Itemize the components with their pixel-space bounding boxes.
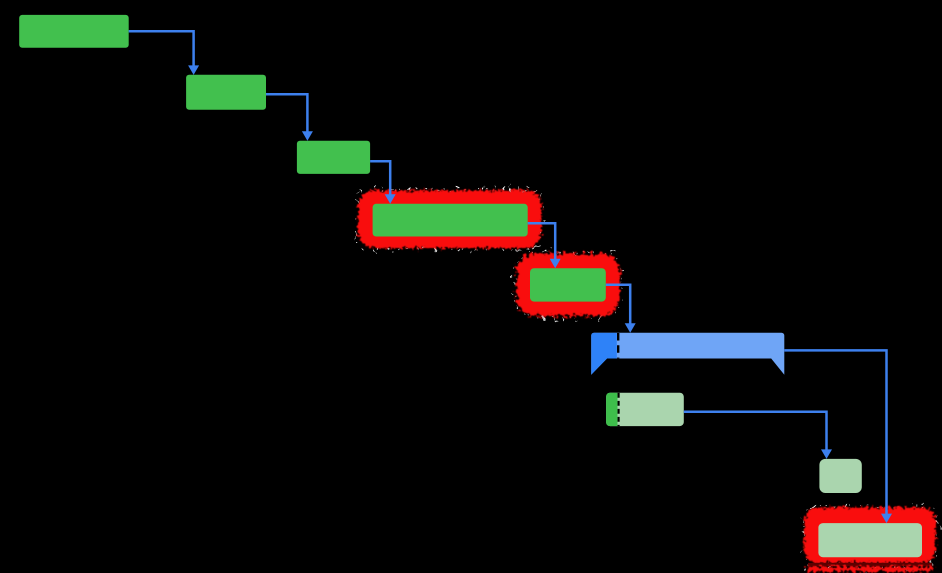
arrowhead into C (302, 131, 313, 141)
red annotation around task D (358, 191, 542, 249)
white compression speckles around task I annotation (803, 506, 937, 568)
task bar B (186, 75, 266, 110)
link D to E (528, 223, 556, 261)
white compression speckles around task E annotation (515, 252, 621, 317)
project bar F progress (591, 333, 617, 375)
dark red edge under task I annotation (808, 563, 932, 567)
project bar F progress drag handle (617, 333, 619, 358)
link C to D (370, 161, 390, 197)
task bar G progress (606, 393, 617, 426)
arrowhead into I (881, 514, 892, 524)
arrowhead into F (625, 323, 636, 333)
link E to F (606, 285, 630, 326)
task bar G progress drag handle (618, 393, 620, 426)
task bar E (critical) (530, 268, 606, 301)
task bar C (297, 141, 370, 174)
project bar F body (591, 333, 784, 375)
red annotation around task E (517, 254, 620, 316)
arrowhead into H (821, 449, 832, 459)
task bar H (819, 459, 861, 493)
task bar A (19, 15, 129, 48)
link G to H (684, 412, 827, 451)
arrowhead into D (385, 194, 396, 204)
link A to B (129, 31, 194, 68)
task bar D (critical) (373, 204, 528, 237)
task bar G body (606, 393, 684, 426)
white compression speckles around task D annotation (357, 189, 544, 250)
red annotation around task I (804, 507, 935, 563)
red fuzzy strip below task I annotation (807, 567, 934, 572)
arrowhead into B (188, 65, 199, 75)
link F to I (784, 350, 886, 516)
arrowhead into E (550, 259, 561, 269)
task bar I (critical) (818, 523, 922, 557)
link B to C (266, 94, 307, 134)
